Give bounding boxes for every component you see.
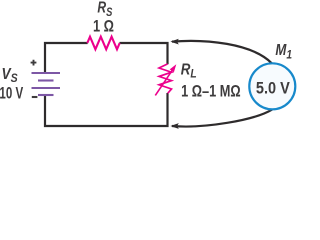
- variable resistor R_L zigzag: [159, 64, 172, 93]
- variable resistor R_L arrow shaft: [155, 69, 173, 95]
- battery V_S plate 2 short: [38, 79, 54, 81]
- variable resistor R_L arrowhead: [170, 64, 177, 72]
- resistor R_S zigzag: [87, 37, 119, 50]
- meter bottom arc wire: [172, 109, 272, 126]
- svg-text:M1: M1: [275, 42, 292, 61]
- battery V_S plate 3 long: [32, 87, 61, 89]
- meter M1 circle: [249, 63, 295, 109]
- svg-text:VS: VS: [2, 66, 19, 85]
- svg-text:1 Ω–1 MΩ: 1 Ω–1 MΩ: [181, 83, 241, 101]
- svg-text:5.0 V: 5.0 V: [256, 80, 290, 98]
- battery plus sign: [31, 60, 37, 66]
- wire top-left: from R_S left end to top-left corner, down to battery + plate: [45, 43, 88, 72]
- meter bottom arc arrowhead: [170, 123, 178, 129]
- battery minus sign: [32, 96, 38, 98]
- meter top arc wire: [172, 41, 272, 64]
- meter top arc arrowhead: [170, 39, 178, 45]
- wire bottom loop: from battery - plate down, bottom wire, up right side to R_L bottom: [45, 93, 168, 126]
- svg-text:RS: RS: [97, 0, 113, 19]
- svg-text:1 Ω: 1 Ω: [93, 18, 114, 36]
- battery V_S plate 4 short (-): [38, 94, 54, 96]
- battery V_S plate 1 long (+): [32, 72, 61, 74]
- wire top-right: from R_S right end to top-right corner, down to R_L top: [120, 43, 168, 64]
- svg-text:10 V: 10 V: [0, 84, 24, 103]
- svg-text:RL: RL: [181, 61, 197, 80]
